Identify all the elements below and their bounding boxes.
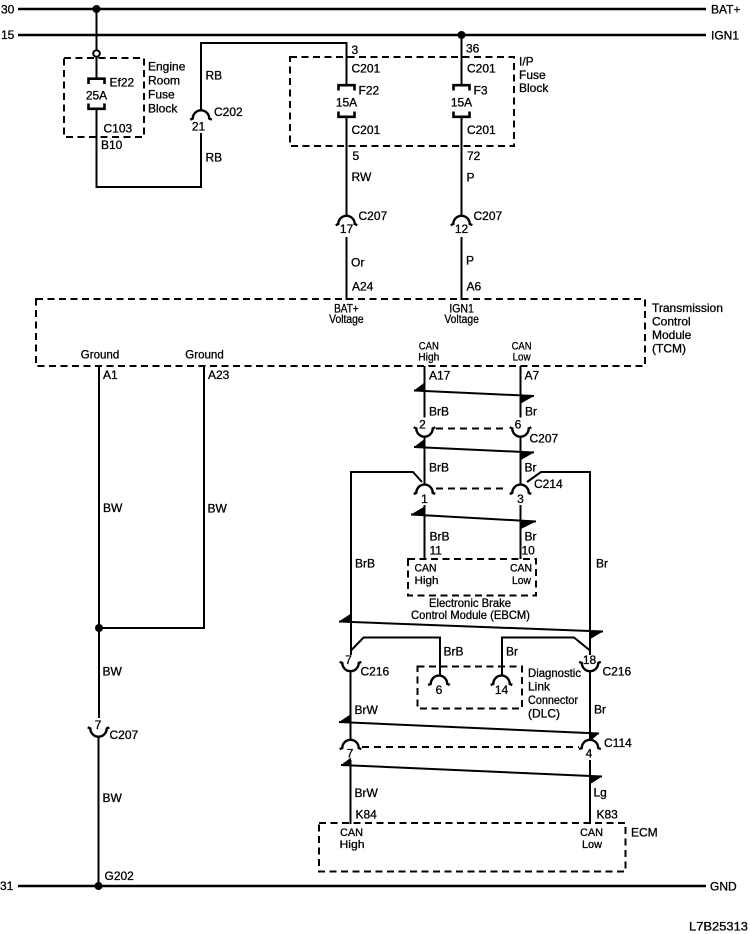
branch wire left to BrB trunk [351,472,422,655]
CAN Low label ECM [580,827,603,851]
svg-text:Control Module (EBCM): Control Module (EBCM) [411,608,530,622]
wire C216-7 to C114-7 [350,672,352,740]
DLC box [418,667,523,709]
connector 7 C114 [340,740,362,761]
I/P Fuse Block label [519,55,549,96]
TCM box [36,299,645,366]
svg-text:Ground: Ground [185,348,224,362]
svg-text:GND: GND [710,880,737,894]
svg-text:BrB: BrB [355,557,375,571]
svg-text:C207: C207 [110,728,139,742]
svg-text:2: 2 [419,418,426,432]
connector 7 C207 left [88,718,139,742]
svg-text:P: P [467,171,475,185]
connector 7 C216 [340,653,390,679]
svg-text:High: High [418,352,439,364]
svg-text:Br: Br [506,645,518,659]
svg-text:Voltage: Voltage [329,312,364,326]
junction dot on bus 30 [93,5,101,13]
connector link dashes C114 7-4 [362,746,579,748]
svg-text:C201: C201 [467,62,496,76]
svg-text:Br: Br [594,703,606,717]
svg-text:BW: BW [208,502,228,516]
svg-text:11: 11 [430,544,443,558]
svg-text:12: 12 [455,222,469,236]
svg-text:Br: Br [596,557,608,571]
twisted pair marker 1 [414,383,534,404]
connector 21 C202 [190,105,243,134]
svg-text:Room: Room [148,74,180,88]
wire top horizontal to F22 [201,43,348,111]
svg-text:C214: C214 [534,477,563,491]
connector 4 C114 [579,736,632,761]
svg-text:C103: C103 [104,122,133,136]
fuse Ef22 25A [86,76,135,109]
svg-text:1: 1 [421,492,428,506]
connector link dashes C214 1-3 [436,488,507,490]
wire from bus 30 to Ef22 [96,9,98,50]
svg-text:IGN1: IGN1 [711,29,739,43]
svg-text:A7: A7 [525,369,540,383]
svg-text:Low: Low [512,575,531,587]
svg-text:BrW: BrW [355,786,379,800]
connector 3 C214 [510,477,563,506]
connector 6 C207 [510,418,559,446]
CAN High label EBCM [415,563,439,588]
ECM box [319,823,626,872]
twisted pair marker 4 long [339,614,603,640]
svg-text:I/P: I/P [519,55,534,69]
svg-text:RB: RB [206,151,223,165]
wire C207-2 to C214-1 [424,437,426,484]
svg-text:Block: Block [519,81,549,95]
svg-text:High: High [340,839,365,851]
DLC label [528,666,581,721]
branch wire to DLC 6 [351,638,440,677]
svg-text:A17: A17 [429,369,451,383]
svg-text:Module: Module [652,328,692,342]
connector ring above fuse block [93,50,100,57]
Engine Room Fuse Block box [64,58,144,137]
svg-text:C216: C216 [603,665,632,679]
svg-text:A6: A6 [467,280,482,294]
twisted pair marker 2 [414,439,534,460]
svg-text:RW: RW [352,170,372,184]
fuse F3 15A [451,84,488,117]
svg-text:72: 72 [467,149,481,163]
twisted pair marker 6 [341,758,602,785]
svg-text:21: 21 [192,120,206,134]
svg-text:Engine: Engine [148,60,186,74]
wire C207-17 to TCM A24 [346,237,348,300]
wire A1 ground upper [98,366,100,718]
wire bus15 to fuse F3 [461,35,463,85]
svg-text:10: 10 [522,544,536,558]
svg-text:C201: C201 [467,123,496,137]
svg-text:(TCM): (TCM) [652,342,686,356]
TCM label [652,301,723,356]
wire C214-1 to EBCM 11 [424,505,426,559]
svg-text:18: 18 [583,653,597,667]
svg-text:G202: G202 [105,869,135,883]
svg-text:25A: 25A [86,89,107,103]
svg-text:Control: Control [652,315,691,329]
wire C207-7 to G202 [98,737,100,886]
svg-text:C207: C207 [474,209,503,223]
svg-text:C202: C202 [214,105,243,119]
CAN Low label EBCM [510,563,532,588]
svg-text:31: 31 [0,879,14,893]
junction dot on bus 15 [458,31,466,39]
svg-text:A1: A1 [103,368,118,382]
svg-text:C201: C201 [352,62,381,76]
svg-text:Lg: Lg [594,786,607,800]
connector 1 C214 [414,485,436,506]
svg-text:30: 30 [1,3,15,17]
IGN1 Voltage label [444,302,479,327]
svg-text:Ef22: Ef22 [110,76,135,90]
wire F3 to C207-12 [461,117,463,216]
wire A23 ground [99,366,204,628]
svg-text:7: 7 [95,718,102,732]
wire C207-6 to C214-3 [520,437,522,484]
svg-text:Block: Block [148,102,178,116]
svg-text:BW: BW [103,665,123,679]
twisted pair marker 3 [411,507,536,530]
svg-text:15: 15 [1,28,15,42]
svg-text:C207: C207 [359,209,388,223]
wire ring to fuse Ef22 [96,57,98,79]
fuse F22 15A [336,84,380,117]
svg-text:CAN: CAN [580,827,603,839]
svg-text:Fuse: Fuse [519,68,546,82]
svg-text:RB: RB [206,69,223,83]
CAN High label TCM [418,341,439,364]
svg-text:6: 6 [436,683,443,697]
svg-text:C216: C216 [361,665,390,679]
connector 17 C207 [336,209,388,236]
wire C114-4 to ECM K83 [589,760,591,824]
svg-text:(DLC): (DLC) [528,707,560,721]
svg-text:C201: C201 [352,123,381,137]
svg-text:6: 6 [515,418,522,432]
svg-text:7: 7 [345,653,352,667]
bus BAT+ line 30 [1,3,740,17]
svg-text:ECM: ECM [631,826,658,840]
svg-text:Br: Br [525,461,537,475]
svg-text:Fuse: Fuse [148,88,175,102]
svg-text:K84: K84 [356,808,378,822]
svg-text:3: 3 [352,43,359,57]
svg-text:BAT+: BAT+ [711,3,740,17]
connector 12 C207 [451,209,503,236]
CAN Low label TCM [512,341,532,364]
svg-text:14: 14 [495,683,509,697]
junction dot ground wires [95,624,103,632]
EBCM caption [411,596,530,622]
branch wire to DLC 14 [502,638,590,677]
connector 2 C207 [414,418,436,437]
wire C214-3 to EBCM 10 [520,505,522,559]
svg-text:BW: BW [103,501,123,515]
Engine Room Fuse Block label [148,60,186,116]
svg-text:A23: A23 [208,368,230,382]
twisted pair marker 5 [339,714,599,741]
svg-text:CAN: CAN [510,563,532,575]
wire C216-18 to C114-4 [589,672,591,740]
wire A7 to C207-6 [520,366,522,418]
svg-text:High: High [415,575,439,587]
svg-text:Ground: Ground [81,348,120,362]
svg-text:Or: Or [351,256,364,270]
svg-text:BrW: BrW [355,703,379,717]
connector 18 C216 [579,653,631,679]
wire into fuse F22 [346,43,348,85]
svg-text:Low: Low [582,839,602,851]
connector 14 DLC [491,676,513,697]
svg-text:Br: Br [525,405,537,419]
svg-text:Link: Link [528,680,551,694]
svg-text:15A: 15A [336,96,357,110]
svg-text:36: 36 [466,42,480,56]
wire C207-12 to TCM A6 [461,237,463,300]
svg-text:C207: C207 [530,432,559,446]
svg-text:F3: F3 [474,84,488,98]
svg-text:Diagnostic: Diagnostic [528,666,581,680]
svg-text:A24: A24 [352,280,374,294]
svg-text:BrB: BrB [429,405,449,419]
bus GND line 31 [0,879,737,894]
svg-text:Transmission: Transmission [652,301,723,315]
svg-text:Low: Low [513,352,531,364]
svg-text:C114: C114 [604,736,632,750]
svg-text:3: 3 [517,492,524,506]
EBCM box [408,559,536,596]
connector 6 DLC [428,676,450,697]
svg-text:Br: Br [525,530,537,544]
svg-text:4: 4 [586,747,593,761]
svg-text:P: P [466,254,474,268]
svg-text:BrB: BrB [429,461,449,475]
svg-text:K83: K83 [597,808,619,822]
connector link dashes C207 2-6 [436,428,507,430]
svg-text:CAN: CAN [340,827,363,839]
bus IGN1 line 15 [1,28,739,43]
svg-text:BrB: BrB [444,645,464,659]
wire F22 to C207-17 [346,117,348,216]
CAN High label ECM [340,827,365,851]
svg-text:CAN: CAN [415,563,437,575]
svg-text:BW: BW [103,791,123,805]
wire C114-7 to ECM K84 [350,760,352,824]
junction dot G202 [95,882,103,890]
svg-text:B10: B10 [101,138,123,152]
svg-text:5: 5 [353,149,360,163]
svg-text:F22: F22 [359,84,380,98]
svg-text:BrB: BrB [430,530,450,544]
svg-text:L7B25313: L7B25313 [689,920,748,934]
svg-text:17: 17 [340,222,354,236]
BAT+ Voltage label [329,302,364,327]
svg-text:Voltage: Voltage [444,312,479,326]
I/P Fuse Block box [290,57,514,146]
wire A17 to C207-2 [424,366,426,418]
branch wire right to Br trunk [527,472,590,655]
wire fuse Ef22 to corner to C202 branch [97,109,202,187]
svg-text:15A: 15A [451,96,472,110]
svg-text:Connector: Connector [528,693,578,707]
